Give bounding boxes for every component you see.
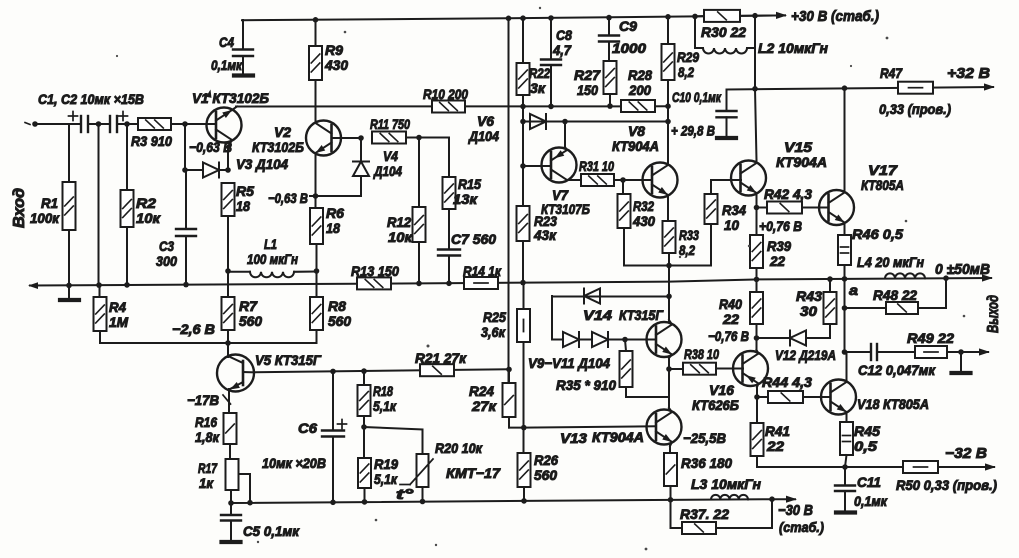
svg-text:−17В: −17В — [187, 392, 219, 408]
svg-text:(стаб.): (стаб.) — [779, 519, 824, 535]
svg-text:30: 30 — [800, 303, 817, 319]
svg-text:R40: R40 — [719, 296, 742, 312]
svg-text:КТ3102Б: КТ3102Б — [252, 139, 304, 155]
svg-text:1,8к: 1,8к — [195, 429, 220, 445]
svg-text:R42 4,3: R42 4,3 — [764, 186, 812, 202]
svg-text:560: 560 — [534, 467, 557, 483]
svg-text:430: 430 — [632, 213, 655, 229]
svg-text:R13 150: R13 150 — [351, 263, 399, 279]
svg-text:−30 В: −30 В — [778, 502, 813, 519]
svg-text:R45: R45 — [854, 423, 880, 439]
svg-text:V1 КТ3102Б: V1 КТ3102Б — [192, 90, 269, 106]
svg-text:V12 Д219А: V12 Д219А — [775, 347, 836, 363]
svg-text:t°: t° — [396, 486, 414, 502]
svg-text:V6: V6 — [477, 113, 494, 129]
svg-text:−0,63 В: −0,63 В — [268, 190, 308, 206]
svg-text:R17: R17 — [198, 460, 218, 476]
svg-text:С8: С8 — [556, 27, 572, 43]
svg-text:V17: V17 — [868, 162, 898, 178]
svg-text:V3 Д104: V3 Д104 — [236, 156, 288, 172]
svg-text:0,5: 0,5 — [854, 438, 877, 454]
svg-text:1000: 1000 — [612, 40, 646, 56]
svg-text:L4 20 мкГн: L4 20 мкГн — [857, 254, 924, 270]
svg-text:−0,76 В: −0,76 В — [708, 328, 749, 344]
svg-text:430: 430 — [324, 57, 348, 73]
svg-text:18: 18 — [326, 220, 340, 236]
svg-text:КТ315Г: КТ315Г — [619, 307, 664, 323]
svg-text:С4: С4 — [219, 34, 234, 50]
svg-text:1М: 1М — [109, 314, 128, 330]
svg-text:R15: R15 — [458, 176, 481, 192]
svg-text:КТ904А: КТ904А — [592, 429, 644, 445]
svg-text:R39: R39 — [767, 238, 791, 254]
svg-text:L2 10мкГн: L2 10мкГн — [758, 40, 829, 56]
svg-text:R9: R9 — [325, 42, 343, 58]
svg-text:С10 0,1мк: С10 0,1мк — [672, 89, 722, 105]
svg-text:300: 300 — [156, 253, 177, 269]
svg-text:0 ±50мВ: 0 ±50мВ — [935, 261, 990, 278]
svg-text:R5: R5 — [236, 183, 254, 199]
svg-text:V5 КТ315Г: V5 КТ315Г — [255, 352, 322, 368]
svg-text:R6: R6 — [326, 205, 344, 221]
svg-text:С7 560: С7 560 — [451, 231, 496, 247]
svg-text:R50 0,33 (пров.): R50 0,33 (пров.) — [896, 477, 997, 493]
svg-text:R48 22: R48 22 — [873, 287, 917, 303]
svg-text:R22: R22 — [529, 65, 550, 81]
svg-text:R7: R7 — [239, 298, 258, 314]
svg-text:V9−V11 Д104: V9−V11 Д104 — [528, 355, 610, 371]
svg-text:560: 560 — [239, 313, 262, 329]
svg-text:КТ904А: КТ904А — [612, 138, 659, 154]
svg-text:V8: V8 — [628, 123, 645, 139]
svg-text:L1: L1 — [264, 236, 277, 252]
svg-text:R11 750: R11 750 — [370, 116, 410, 132]
svg-text:R4: R4 — [109, 299, 126, 315]
svg-text:R19: R19 — [374, 456, 398, 472]
svg-text:R41: R41 — [765, 423, 790, 439]
svg-text:100 мкГн: 100 мкГн — [247, 251, 298, 267]
svg-text:+32 В: +32 В — [947, 65, 990, 82]
svg-text:R14 1к: R14 1к — [463, 263, 502, 279]
svg-text:27к: 27к — [471, 398, 497, 414]
svg-text:5,1к: 5,1к — [374, 471, 398, 487]
svg-text:Д104: Д104 — [468, 128, 499, 144]
svg-text:С11: С11 — [857, 474, 881, 490]
svg-text:R32: R32 — [633, 198, 654, 214]
svg-text:R21 27к: R21 27к — [415, 350, 467, 366]
svg-text:R49 22: R49 22 — [907, 330, 954, 346]
svg-text:43к: 43к — [533, 227, 557, 243]
svg-text:R30 22: R30 22 — [701, 24, 746, 40]
svg-text:R29: R29 — [677, 49, 699, 65]
svg-text:+30 В (стаб.): +30 В (стаб.) — [791, 8, 879, 25]
svg-text:R27: R27 — [574, 67, 601, 83]
svg-text:КМТ−17: КМТ−17 — [446, 465, 501, 481]
svg-text:5,1к: 5,1к — [373, 398, 397, 414]
svg-text:V18 КТ805А: V18 КТ805А — [857, 396, 929, 412]
svg-text:R2: R2 — [136, 195, 156, 211]
svg-text:Вход: Вход — [11, 188, 28, 228]
svg-text:22: 22 — [722, 311, 739, 327]
svg-text:R10 200: R10 200 — [423, 86, 468, 102]
svg-text:С12 0,047мк: С12 0,047мк — [858, 362, 936, 378]
svg-text:10мк ×20В: 10мк ×20В — [262, 455, 326, 471]
svg-text:С9: С9 — [619, 18, 637, 34]
svg-text:R28: R28 — [628, 67, 652, 83]
svg-text:0,1мк: 0,1мк — [854, 493, 888, 509]
svg-text:10к: 10к — [388, 229, 413, 245]
svg-text:R44 4,3: R44 4,3 — [762, 374, 812, 390]
svg-text:10: 10 — [724, 217, 739, 233]
svg-text:R38 10: R38 10 — [684, 346, 719, 362]
svg-text:С1, С2 10мк ×15В: С1, С2 10мк ×15В — [38, 91, 144, 107]
svg-text:V15: V15 — [784, 139, 812, 155]
svg-text:22: 22 — [766, 438, 784, 454]
svg-text:КТ904А: КТ904А — [776, 154, 827, 170]
svg-text:R3 910: R3 910 — [131, 133, 172, 149]
svg-text:R26: R26 — [534, 452, 558, 468]
svg-text:0,33 (пров.): 0,33 (пров.) — [879, 101, 951, 117]
svg-text:L3 10мкГн: L3 10мкГн — [691, 476, 762, 492]
svg-text:3,6к: 3,6к — [481, 324, 506, 340]
svg-text:150: 150 — [577, 82, 598, 98]
svg-text:R33: R33 — [679, 227, 699, 243]
svg-text:0,1мк: 0,1мк — [211, 57, 243, 73]
svg-text:КТ626Б: КТ626Б — [692, 397, 739, 413]
svg-text:8,2: 8,2 — [678, 64, 694, 80]
svg-text:R35 * 910: R35 * 910 — [556, 377, 616, 393]
svg-text:а: а — [849, 282, 858, 298]
svg-text:V2: V2 — [274, 124, 291, 140]
svg-text:+ 29,8 В: + 29,8 В — [671, 123, 715, 139]
svg-text:13к: 13к — [453, 191, 478, 207]
svg-text:1к: 1к — [199, 475, 214, 491]
svg-text:18: 18 — [236, 198, 250, 214]
svg-text:С3: С3 — [159, 238, 174, 254]
svg-text:R43: R43 — [796, 288, 822, 304]
svg-text:R12: R12 — [387, 214, 411, 230]
svg-text:22: 22 — [769, 253, 785, 269]
svg-text:R46 0,5: R46 0,5 — [852, 226, 903, 242]
svg-text:4,7: 4,7 — [552, 42, 572, 58]
svg-text:−0,63 В: −0,63 В — [189, 139, 232, 155]
svg-text:+0,76 В: +0,76 В — [759, 218, 802, 234]
svg-text:V13: V13 — [560, 430, 587, 446]
svg-text:R20 10к: R20 10к — [435, 440, 483, 456]
svg-text:R34: R34 — [722, 202, 746, 218]
svg-text:R16: R16 — [195, 414, 217, 430]
svg-text:−32 В: −32 В — [945, 445, 987, 462]
svg-text:R24: R24 — [469, 383, 494, 399]
svg-text:R47: R47 — [880, 65, 903, 81]
svg-text:Д104: Д104 — [373, 163, 402, 179]
svg-text:С6: С6 — [298, 420, 317, 436]
svg-text:V16: V16 — [709, 382, 734, 398]
svg-text:200: 200 — [628, 82, 651, 98]
svg-text:R36 180: R36 180 — [681, 455, 732, 471]
svg-text:10к: 10к — [136, 210, 161, 226]
svg-text:R8: R8 — [328, 298, 346, 314]
svg-text:R31 10: R31 10 — [579, 158, 614, 174]
svg-text:V14: V14 — [583, 307, 612, 323]
svg-text:560: 560 — [328, 313, 351, 329]
svg-text:−2,6 В: −2,6 В — [172, 321, 215, 337]
svg-text:КТ805А: КТ805А — [861, 177, 904, 193]
svg-text:8,2: 8,2 — [679, 242, 695, 258]
svg-text:Выход: Выход — [985, 295, 1002, 333]
svg-text:R37. 22: R37. 22 — [680, 506, 729, 522]
svg-text:С5 0,1мк: С5 0,1мк — [243, 523, 300, 539]
svg-text:R25: R25 — [483, 309, 506, 325]
svg-text:R18: R18 — [373, 383, 393, 399]
svg-text:3к: 3к — [530, 80, 546, 96]
svg-text:V4: V4 — [383, 148, 398, 164]
svg-text:100к: 100к — [30, 210, 60, 226]
svg-text:R1: R1 — [41, 195, 58, 211]
svg-text:−25,5В: −25,5В — [683, 430, 726, 446]
